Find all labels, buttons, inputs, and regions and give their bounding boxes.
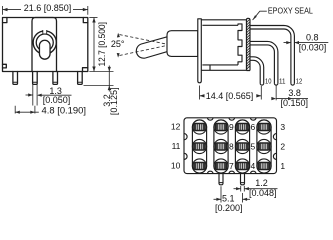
svg-text:2: 2 — [280, 141, 285, 151]
svg-text:4: 4 — [251, 161, 256, 171]
svg-text:11: 11 — [279, 79, 286, 86]
svg-text:3: 3 — [280, 122, 285, 132]
svg-text:25°: 25° — [111, 39, 125, 49]
svg-text:[0.200]: [0.200] — [215, 203, 243, 213]
svg-text:8: 8 — [229, 141, 234, 151]
svg-text:6: 6 — [251, 122, 256, 132]
svg-text:12: 12 — [296, 79, 303, 86]
svg-text:21.6 [0.850]: 21.6 [0.850] — [24, 3, 72, 13]
svg-text:12.7 [0.500]: 12.7 [0.500] — [97, 22, 107, 67]
svg-text:[0.048]: [0.048] — [249, 188, 277, 198]
svg-text:4.8 [0.190]: 4.8 [0.190] — [42, 106, 87, 116]
svg-text:12: 12 — [171, 122, 181, 132]
svg-text:1.2: 1.2 — [255, 178, 268, 188]
svg-text:5: 5 — [251, 141, 256, 151]
svg-text:5.1: 5.1 — [222, 193, 235, 203]
svg-text:[0.125]: [0.125] — [109, 88, 119, 116]
svg-text:10: 10 — [265, 79, 272, 86]
svg-text:[0.030]: [0.030] — [299, 42, 327, 52]
svg-text:EPOXY SEAL: EPOXY SEAL — [268, 5, 313, 15]
svg-text:7: 7 — [229, 161, 234, 171]
svg-text:9: 9 — [229, 122, 234, 132]
svg-text:3.8: 3.8 — [288, 88, 301, 98]
svg-text:10: 10 — [171, 161, 181, 171]
svg-text:14.4 [0.565]: 14.4 [0.565] — [206, 91, 254, 101]
svg-text:11: 11 — [172, 141, 181, 151]
svg-text:1: 1 — [280, 161, 285, 171]
svg-text:0.8: 0.8 — [306, 32, 319, 42]
svg-text:[0.150]: [0.150] — [281, 98, 309, 108]
svg-text:[0.050]: [0.050] — [43, 95, 71, 105]
